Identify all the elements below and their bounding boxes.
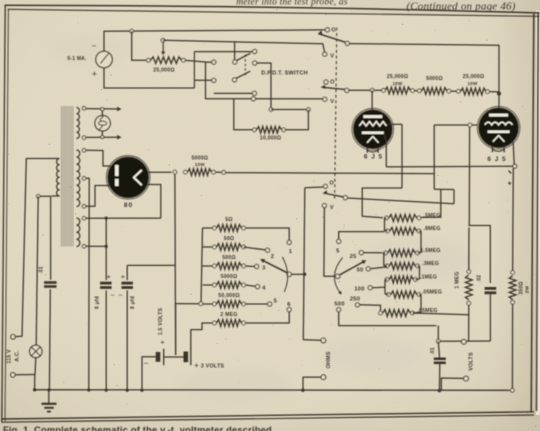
svg-text:V: V (330, 54, 334, 60)
node volts junction (436, 339, 440, 343)
label 6J5 no.2 (487, 156, 506, 163)
svg-text:5Ω: 5Ω (225, 217, 232, 223)
wire wiper to V1 (163, 40, 325, 52)
wire grid1 to chain (362, 188, 402, 218)
tube2 heater stub right (503, 146, 505, 153)
running text top right (Continued on page 46) (406, 1, 515, 13)
wire plate1 drop (371, 90, 373, 110)
wire d50 tap (370, 267, 387, 269)
resistor 50 ohm shunt (217, 244, 242, 251)
label 1.5 volts (158, 307, 165, 346)
resistor 500 ohm shunt (217, 263, 242, 270)
label d100 (354, 286, 364, 292)
terminal 1meg bottom (467, 301, 471, 305)
label V2 (330, 99, 334, 105)
wire 10k top link (271, 109, 307, 111)
label shunt 4 (221, 274, 238, 280)
contact O2 (324, 80, 328, 84)
wire W2 bottom to plate2 (86, 186, 111, 207)
svg-text:4: 4 (262, 285, 266, 291)
terminal pot right (182, 58, 186, 62)
terminal 5k a (184, 170, 188, 174)
svg-text:25,000Ω: 25,000Ω (463, 74, 484, 80)
terminal r1a (382, 89, 386, 93)
wire R2 to 10k right route (257, 63, 271, 110)
label 8 mfd no.1 (95, 296, 101, 309)
terminal shunt 5 left (213, 302, 217, 306)
terminal r3a (457, 89, 461, 93)
wire ohms bottom (303, 377, 321, 390)
wire primary bottom lead (52, 195, 60, 197)
wire plate2 drop (498, 94, 500, 109)
page right rule line 1 (531, 14, 534, 412)
DPDT blade 1 pivot (233, 60, 237, 64)
tube2 heater stub left (491, 146, 493, 153)
contact c1 (287, 240, 291, 244)
wire 5k link (215, 171, 221, 173)
svg-text:.05MEG: .05MEG (422, 290, 442, 296)
label +3 volts (194, 361, 224, 370)
svg-text:2 MEG: 2 MEG (220, 312, 237, 318)
terminal r2b (447, 89, 451, 93)
label 0-1 MA (67, 56, 87, 62)
node 10k top left (269, 108, 273, 112)
resistor divider .8MEG row2 (390, 228, 417, 235)
terminal shunt 6 left (213, 321, 217, 325)
wire grid2 (434, 124, 477, 126)
label 115 V (7, 349, 13, 364)
tube80 plate bar 2 (115, 179, 119, 186)
transformer secondary W2 HV (77, 150, 80, 206)
capacitor 8 mfd no.2 (121, 283, 133, 287)
svg-text:5000Ω: 5000Ω (426, 76, 443, 82)
terminal r3b (486, 90, 490, 94)
running text top left (cropped) (236, 0, 348, 8)
node bus x49 (47, 388, 50, 391)
node W3 bottom cap1 (105, 245, 108, 248)
svg-text:+: + (92, 69, 97, 79)
label VOLTS (469, 352, 475, 371)
svg-text:10W: 10W (392, 81, 403, 86)
svg-text:25: 25 (350, 254, 357, 260)
pivot P1 (345, 41, 349, 45)
pilot lamp 115v (30, 345, 42, 357)
terminal W2 tap (82, 177, 86, 181)
wire P2 to plate row (349, 89, 370, 91)
wire fil right to W3 link (147, 185, 161, 219)
wire lamp bottom stub (34, 358, 37, 375)
terminal div5b (414, 278, 418, 282)
label 25k-2 (463, 74, 484, 86)
wire cap2 riser (126, 265, 128, 280)
wire 1meg down (468, 305, 470, 341)
wire meter bottom (104, 68, 194, 88)
node rect output (173, 170, 177, 174)
terminal W3 bottom (82, 245, 86, 249)
wire d500 riser (339, 312, 437, 326)
contact d100 (368, 286, 372, 290)
svg-text:+: + (160, 338, 165, 347)
tube2 base link (492, 149, 504, 151)
DPDT contact R4 (251, 97, 255, 101)
label minus cap2 (118, 291, 123, 300)
contact O3 (323, 184, 327, 188)
contact c5 (268, 302, 272, 306)
node plate 1 (370, 88, 374, 92)
rotary1 sweep arc (282, 257, 287, 292)
svg-text:.01: .01 (39, 266, 45, 274)
svg-text:250: 250 (350, 296, 360, 302)
node bank bus battery (199, 302, 203, 306)
meter M1 0-1 MA (92, 42, 113, 80)
resistor 25,000 ohm 10W no.1 (385, 87, 411, 94)
wire W3 bottom link (86, 245, 106, 247)
junction ohms line (303, 273, 306, 276)
tube80 filament chevron (134, 170, 142, 185)
terminal W3 top (82, 216, 86, 220)
svg-text:V: V (330, 205, 334, 211)
ground bus (35, 389, 513, 392)
tube1 heater stub left (366, 147, 368, 153)
wire grid2 riser x434 (433, 125, 435, 189)
tube80 plate bar 1 (115, 165, 119, 176)
arrow W1 top (117, 107, 121, 112)
svg-text:5000Ω: 5000Ω (191, 155, 208, 161)
wire V3 to rotary2 pivot (324, 208, 335, 276)
wire grid1 riser (401, 124, 403, 188)
svg-text:8 μfd: 8 μfd (130, 296, 136, 309)
wire battery tap jog (176, 303, 199, 305)
node ac bus (33, 388, 36, 391)
svg-text:2: 2 (271, 254, 274, 260)
wire rotary1 out (291, 273, 303, 275)
svg-text:(Continued on page 46): (Continued on page 46) (406, 1, 515, 13)
wire shunt3 to c3 (246, 265, 255, 268)
wire tube2 cathode lead (513, 142, 514, 164)
terminal shunt 1 left (213, 226, 217, 230)
wire to P3 (347, 198, 454, 204)
label O1 (331, 28, 336, 34)
node 350 bus (511, 388, 515, 392)
label divider row3 (420, 248, 440, 254)
tube2 cathode bar (488, 130, 510, 133)
page bottom rule line 1 (2, 412, 535, 419)
svg-text:.8MEG: .8MEG (423, 226, 440, 232)
junction B plus (497, 92, 501, 96)
wire grid2 node drop (468, 127, 470, 223)
wire ac to bus (34, 375, 36, 390)
wire rect output (149, 171, 172, 173)
wire 350 down (511, 305, 513, 391)
contact c3 (255, 264, 259, 268)
wire W3 top link (86, 217, 161, 219)
svg-text:115 V: 115 V (7, 349, 13, 364)
svg-text:10,000Ω: 10,000Ω (260, 136, 281, 142)
svg-text:OHMS: OHMS (326, 351, 332, 368)
wire d100 tap (372, 286, 385, 289)
wire d25 tap (363, 252, 384, 254)
wire L2 stub (194, 79, 211, 81)
terminal 350 bottom (511, 300, 515, 304)
label 8 mfd no.2 (130, 296, 136, 309)
wire ohms feed vertical (303, 188, 305, 340)
wire shunt5 to c5 (246, 303, 268, 305)
label divider row5 (420, 275, 437, 281)
wire O3 to ohms line (305, 186, 323, 189)
node bus x127 (126, 389, 129, 392)
pivot P3 (343, 196, 347, 200)
svg-text:6 J 5: 6 J 5 (364, 154, 383, 161)
svg-text:5: 5 (274, 299, 278, 305)
svg-text:+: + (194, 361, 199, 370)
wire cap1 down (105, 290, 107, 390)
page bottom rule line 2 (2, 415, 535, 422)
pivot P2 (345, 88, 349, 92)
wire cap2 down (126, 290, 128, 390)
svg-text:3: 3 (262, 265, 266, 271)
wire W2 tap ground riser (86, 178, 89, 390)
terminal div6b (417, 293, 421, 297)
tube1 cathode bar (362, 132, 384, 135)
terminal shunt 2 right (242, 245, 246, 249)
contact c2 (265, 248, 269, 252)
svg-text:2W: 2W (525, 285, 531, 293)
svg-text:−: − (144, 359, 149, 368)
node ohms bus (301, 389, 304, 392)
label 80 (124, 202, 133, 209)
capacitor 8 mfd no.1 (100, 283, 112, 287)
wire P1 to B plus bus (349, 44, 499, 92)
switch arm 2 (321, 85, 344, 90)
resistor 5000 ohm shunt (217, 282, 242, 289)
terminal OHMS top (321, 338, 326, 343)
wire W1 bottom lead (86, 136, 117, 138)
svg-text:D.P.D.T. SWITCH: D.P.D.T. SWITCH (261, 71, 308, 77)
label 10,000 ohm (260, 136, 281, 142)
rotary2 pivot (336, 274, 340, 278)
caption bottom (cropped) (3, 425, 275, 431)
svg-text:3 VOLTS: 3 VOLTS (201, 364, 225, 370)
junction cathode right (513, 164, 517, 168)
ground symbol (42, 390, 57, 412)
label divider row1 (423, 213, 440, 219)
label shunt 2 (224, 236, 235, 242)
wire bat neg lead (142, 357, 156, 390)
wire chain bottom out (413, 313, 469, 315)
node primary bottom (36, 194, 40, 198)
terminal W2 top (82, 149, 86, 153)
node W3 cap1 (105, 217, 108, 220)
rotary1 pivot (287, 272, 291, 276)
terminal 350 top (511, 271, 515, 275)
DPDT contact R1 (253, 49, 257, 53)
wire shunt 3 left stub (203, 265, 213, 267)
svg-text:V: V (330, 99, 334, 105)
resistor 350 ohm 2W vertical (509, 276, 516, 300)
label 350 ohm (519, 281, 525, 294)
label 2W (525, 285, 531, 293)
resistor divider 1.5MEG row3 (388, 250, 416, 257)
terminal W2 bottom (82, 205, 86, 209)
svg-text:1.5MEG: 1.5MEG (420, 248, 440, 254)
terminal 115V bottom (11, 373, 16, 378)
label .01 line (39, 266, 45, 274)
DPDT contact L1 (212, 60, 216, 64)
wire 2meg staircase (191, 323, 213, 348)
svg-text:6: 6 (287, 302, 291, 308)
wire W1 top lead (86, 108, 117, 110)
terminal div2a (386, 229, 390, 233)
terminal div7b (411, 311, 415, 315)
label shunt 3 (222, 255, 236, 261)
terminal W1 top (82, 107, 86, 111)
tube1 base link (367, 150, 378, 152)
svg-text:500: 500 (334, 301, 344, 307)
resistor 5000 ohm mid (422, 88, 448, 95)
wire volts bottom (441, 378, 463, 391)
svg-text:−: − (92, 42, 97, 51)
DPDT contact R2 (253, 61, 257, 65)
wire bat junction (164, 356, 183, 358)
label 25,000 ohm pot (153, 68, 174, 74)
wire link 189 drop (453, 190, 455, 204)
svg-text:+: + (107, 272, 112, 281)
wire 1meg feed (469, 223, 490, 283)
wire cap2 jog (127, 264, 175, 266)
label plus cap2 (121, 272, 126, 281)
terminal div1a (385, 216, 389, 220)
svg-text:−: − (110, 291, 115, 300)
terminal shunt 2 left (213, 245, 217, 249)
wire link 189 (434, 188, 454, 190)
svg-text:O: O (330, 80, 335, 86)
label d50 (357, 267, 364, 273)
label .01 output (430, 347, 436, 355)
label d5 (336, 249, 340, 255)
wire grid1 stub (389, 123, 403, 125)
node volts bus (438, 389, 441, 392)
svg-text:Fig. 1. Complete schematic of: Fig. 1. Complete schematic of the v.-t. … (3, 425, 275, 431)
wire cathode right riser (512, 168, 515, 271)
wire plate row c (451, 90, 457, 92)
svg-text:O: O (329, 181, 334, 187)
label divider row7 (417, 308, 437, 314)
wire shunt6 to c6 (246, 312, 290, 323)
battery 1.5 volts (158, 349, 164, 365)
tube 80 envelope (106, 156, 150, 200)
terminal shunt 4 left (213, 283, 217, 287)
label 25k-1 (387, 74, 408, 86)
wire shunt 5 left stub (203, 303, 213, 305)
svg-text:VOLTS: VOLTS (469, 352, 475, 371)
terminal div5a (385, 278, 389, 282)
label .02 (477, 275, 483, 283)
terminal div3b (416, 251, 420, 255)
wire R3 stub (214, 92, 252, 94)
svg-text:.5MEG: .5MEG (423, 213, 440, 219)
switch arm 3 (323, 190, 343, 197)
wire cathode bus to junction (386, 165, 513, 168)
resistor 5 ohm shunt (217, 225, 242, 232)
label c2 (271, 254, 274, 260)
wire plate row b (415, 90, 418, 92)
svg-text:1: 1 (289, 249, 293, 255)
wire pot right to L1 (186, 60, 206, 62)
DPDT contact L2 (212, 78, 216, 82)
svg-text:O: O (331, 28, 336, 34)
resistor divider .5MEG row1 (389, 215, 417, 222)
wire meter top (104, 30, 325, 51)
label d25 (350, 254, 357, 260)
tube 6J5 no.2 envelope (477, 106, 520, 149)
page right rule line 2 (537, 13, 539, 412)
label shunt 1 (225, 217, 232, 223)
wire W2 top to plate1 (86, 150, 111, 166)
node grid2 (468, 123, 472, 127)
terminal div2b (417, 229, 421, 233)
terminal 5k b (212, 170, 216, 174)
pilot lamp (95, 116, 110, 131)
label c6 (287, 302, 291, 308)
label d250 (350, 296, 360, 302)
svg-text:5: 5 (336, 249, 340, 255)
page left rule line 1 (2, 5, 5, 422)
wire 1meg top lead (468, 228, 470, 270)
resistor 50,000 ohm shunt (217, 301, 242, 308)
DPDT blade 2 pivot (232, 78, 236, 82)
node on top wire (130, 29, 134, 33)
label c1 (289, 249, 293, 255)
tube2 grid wavy (485, 122, 513, 125)
svg-text:A.C.: A.C. (15, 350, 21, 362)
label O3 (329, 181, 334, 187)
wire .02 down (489, 294, 491, 341)
svg-text:meter into the test probe,: meter into the test probe, as (236, 0, 348, 8)
resistor 25,000 ohm 10W no.2 (461, 88, 487, 95)
wire divider riser x175 (174, 174, 177, 355)
transformer secondary W1 pilot (77, 108, 80, 139)
resistor 1 MEG vertical (465, 275, 472, 300)
left bank bus (201, 228, 203, 304)
terminal shunt 1 right (242, 226, 246, 230)
tube2 filament (493, 136, 505, 142)
wire shunt 2 left stub (203, 246, 213, 248)
contact d25 (359, 251, 363, 255)
wire dot01 down (48, 289, 51, 390)
terminal div3a (384, 251, 388, 255)
terminal shunt 4 right (242, 283, 246, 287)
page top rule line 2 (8, 9, 540, 16)
resistor 2 MEG shunt (217, 320, 242, 327)
wire chain7 drop (437, 326, 439, 342)
wire blade1 feed tee (234, 41, 236, 60)
contact V3 (322, 204, 326, 208)
label c4 (262, 285, 266, 291)
svg-text:.01: .01 (430, 347, 436, 355)
label V3 (330, 205, 334, 211)
chain right link 4-5 (416, 266, 420, 280)
wire primary top lead (15, 159, 59, 337)
terminal shunt 5 right (242, 302, 246, 306)
wire d250 tap (360, 305, 381, 311)
label c3 (262, 265, 266, 271)
label divider row2 (423, 226, 440, 232)
svg-text:.1MEG: .1MEG (420, 275, 437, 281)
label OHMS (326, 351, 332, 368)
contact O1 (325, 28, 329, 32)
tube2 plate bar (489, 114, 508, 117)
wire W2 top to R1 (194, 51, 252, 53)
